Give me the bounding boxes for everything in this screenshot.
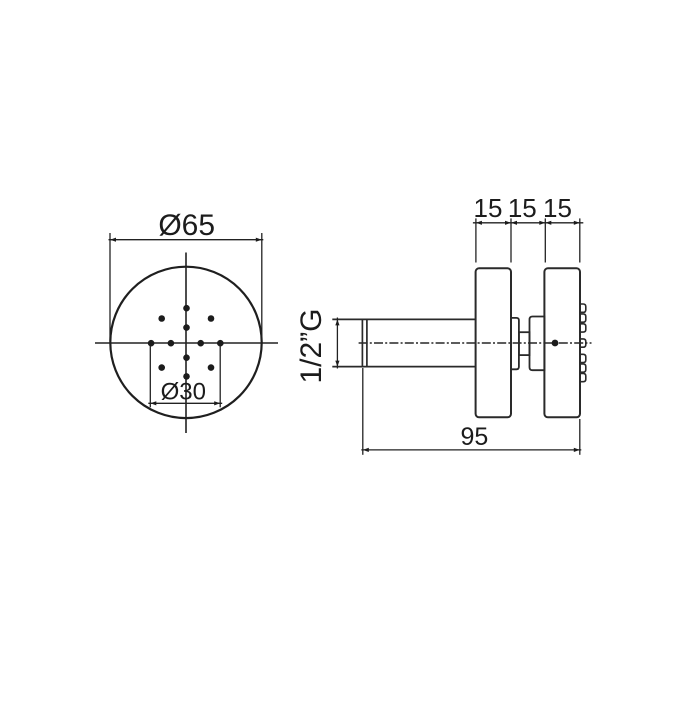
svg-text:95: 95: [460, 423, 488, 451]
svg-text:1/2”G: 1/2”G: [295, 308, 328, 383]
svg-text:Ø30: Ø30: [161, 378, 206, 405]
svg-text:15: 15: [508, 193, 537, 223]
svg-text:Ø65: Ø65: [158, 209, 215, 242]
svg-text:15: 15: [543, 193, 572, 223]
svg-text:15: 15: [474, 193, 503, 223]
